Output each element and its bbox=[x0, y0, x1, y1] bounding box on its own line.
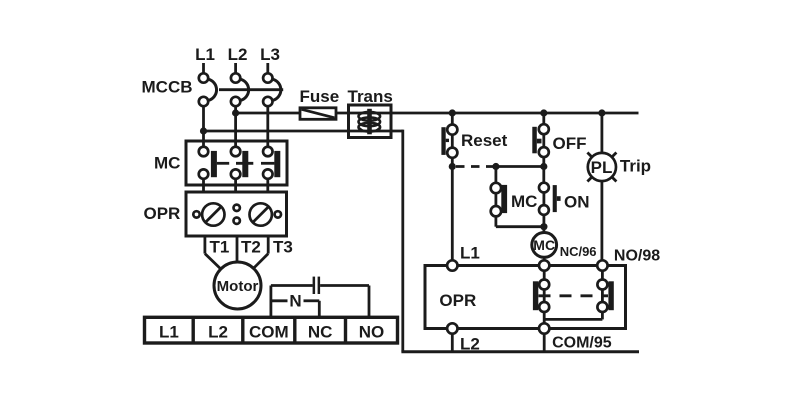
svg-text:Motor: Motor bbox=[217, 278, 259, 295]
svg-text:ON: ON bbox=[564, 193, 590, 212]
svg-text:OFF: OFF bbox=[553, 134, 587, 153]
svg-text:Reset: Reset bbox=[461, 131, 508, 150]
svg-text:OPR: OPR bbox=[439, 291, 476, 310]
svg-text:L2: L2 bbox=[228, 45, 248, 64]
svg-text:COM/95: COM/95 bbox=[552, 335, 612, 352]
svg-text:Trip: Trip bbox=[620, 157, 651, 176]
svg-text:COM: COM bbox=[249, 323, 289, 342]
svg-text:L1: L1 bbox=[159, 323, 179, 342]
svg-text:NC: NC bbox=[308, 323, 333, 342]
svg-text:Fuse: Fuse bbox=[300, 87, 340, 106]
svg-text:T2: T2 bbox=[241, 238, 261, 257]
svg-text:L2: L2 bbox=[460, 335, 480, 354]
svg-text:L3: L3 bbox=[260, 45, 280, 64]
svg-text:T1: T1 bbox=[210, 238, 230, 257]
svg-text:T3: T3 bbox=[273, 238, 293, 257]
svg-text:L2: L2 bbox=[208, 323, 228, 342]
svg-text:MC: MC bbox=[154, 154, 180, 173]
svg-text:NO/98: NO/98 bbox=[614, 248, 660, 265]
svg-text:MCCB: MCCB bbox=[142, 78, 193, 97]
svg-text:NC/96: NC/96 bbox=[560, 244, 597, 259]
svg-text:N: N bbox=[289, 292, 301, 311]
svg-text:MC: MC bbox=[533, 237, 555, 253]
svg-text:L1: L1 bbox=[460, 244, 480, 263]
svg-text:PL: PL bbox=[591, 158, 613, 177]
svg-text:L1: L1 bbox=[195, 45, 215, 64]
svg-text:NO: NO bbox=[359, 323, 385, 342]
svg-text:OPR: OPR bbox=[144, 204, 181, 223]
svg-text:Trans: Trans bbox=[348, 87, 393, 106]
svg-text:MC: MC bbox=[511, 192, 537, 211]
